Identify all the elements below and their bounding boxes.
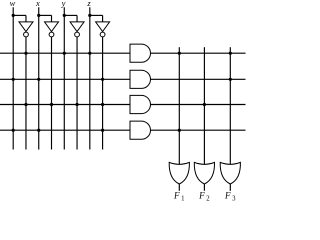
svg-text:w: w [10,0,16,8]
svg-text:F: F [198,191,205,201]
svg-text:1: 1 [181,196,184,203]
svg-text:3: 3 [232,196,236,203]
svg-text:z: z [86,0,91,8]
svg-text:F: F [173,191,180,201]
svg-text:2: 2 [206,196,210,203]
svg-text:F: F [224,191,231,201]
svg-text:y: y [61,0,66,8]
svg-text:x: x [35,0,40,8]
